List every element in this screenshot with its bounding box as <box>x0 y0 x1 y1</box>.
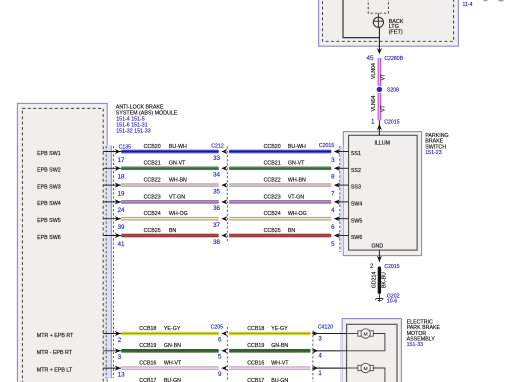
wire CCB23 VT-GN right segment <box>229 200 331 201</box>
svg-text:34: 34 <box>213 172 220 179</box>
svg-text:BN: BN <box>288 228 296 234</box>
svg-text:C212: C212 <box>211 143 224 149</box>
svg-text:VLN04: VLN04 <box>371 63 377 79</box>
motor M1 return loop to pin 4 <box>347 334 385 351</box>
svg-text:CCB19: CCB19 <box>139 343 156 349</box>
svg-text:19: 19 <box>118 190 125 197</box>
cut-off marks top right <box>484 0 488 1</box>
connector C205 arrow on wire CCB19 <box>221 348 227 353</box>
motor assembly inner body <box>347 324 397 382</box>
svg-text:CCB18: CCB18 <box>139 326 156 332</box>
wire CCB19 stub into park brake motor assembly <box>312 350 347 352</box>
svg-text:151-23: 151-23 <box>425 150 442 156</box>
internal wire L-shape inside module U2 <box>343 0 379 38</box>
svg-text:CCB24: CCB24 <box>264 211 281 217</box>
motor pin stub lines through connector face <box>318 333 347 335</box>
svg-text:VT: VT <box>380 104 386 111</box>
svg-text:EPB SW5: EPB SW5 <box>37 218 61 224</box>
svg-text:VT: VT <box>380 73 386 80</box>
svg-text:EPB SW6: EPB SW6 <box>37 235 61 241</box>
motor M1 feed wire <box>347 333 358 335</box>
electric park brake motor assembly M-box outer <box>342 319 401 382</box>
wire CCB20 BU-WH stub at ABS module pin 17 <box>103 151 121 153</box>
wire CCB22 stub into parking brake switch <box>338 184 349 186</box>
wire CCB21 GN-VT left segment <box>121 167 219 168</box>
wire CCB25 BN left segment <box>121 234 219 235</box>
connector C212 arrow on wire CCB25 <box>221 233 227 238</box>
svg-text:41: 41 <box>118 241 125 248</box>
svg-text:EPB SW3: EPB SW3 <box>37 184 61 190</box>
connector C205 arrow on wire CCB18 <box>221 331 227 336</box>
wire CCB18 stub into park brake motor assembly <box>312 333 347 335</box>
svg-text:MTR + EPB RT: MTR + EPB RT <box>37 333 74 339</box>
svg-text:BU-GN: BU-GN <box>164 378 181 382</box>
wire CCB21 GN-VT right segment <box>229 167 331 168</box>
in-line connector C212 dashed line <box>226 147 228 242</box>
svg-text:SW5: SW5 <box>351 218 363 224</box>
svg-text:VT-GN: VT-GN <box>288 194 304 200</box>
motor M2 return loop (cut off at page bottom) <box>373 368 385 382</box>
wire CCB24 WH-OG left segment <box>121 217 219 218</box>
svg-text:151-32 151-33: 151-32 151-33 <box>116 128 151 134</box>
connector C135 band at ABS module edge <box>104 146 111 379</box>
svg-text:CCB21: CCB21 <box>144 161 161 167</box>
svg-text:7: 7 <box>331 190 335 197</box>
svg-text:CCB17: CCB17 <box>247 378 264 382</box>
svg-text:C2015: C2015 <box>384 264 399 270</box>
connector C212 arrow on wire CCB21 <box>221 166 227 171</box>
svg-text:BU-WH: BU-WH <box>288 144 306 150</box>
wire CCB24 WH-OG stub at ABS module pin 39 <box>103 218 121 220</box>
wire CCB20 BU-WH left segment <box>121 150 219 151</box>
svg-text:WH-VT: WH-VT <box>271 361 289 367</box>
module U1 inner dashed border <box>22 108 103 382</box>
connector C4120 band at motor assembly edge <box>340 330 343 382</box>
svg-text:6: 6 <box>218 336 222 343</box>
wire CCB23 VT-GN left segment <box>121 200 219 201</box>
wire CCB20 BU-WH right segment <box>229 150 331 151</box>
connector C4120 arrow on wire CCB18 <box>312 331 318 336</box>
svg-text:VT-GN: VT-GN <box>169 194 185 200</box>
svg-text:1: 1 <box>371 119 375 126</box>
connector C212 arrow on wire CCB23 <box>221 199 227 204</box>
connector C2015 band at switch edge <box>340 146 343 252</box>
connector C2015 arrow on wire CCB20 <box>334 149 340 154</box>
wire VLN04 VT lower segment <box>377 93 380 121</box>
wire CCB23 stub into parking brake switch <box>338 201 349 203</box>
wire CCB16 stub into park brake motor assembly <box>312 367 347 369</box>
svg-text:WH-OG: WH-OG <box>288 211 307 217</box>
svg-text:CCB24: CCB24 <box>144 211 161 217</box>
connector C212 arrow on wire CCB22 <box>221 183 227 188</box>
svg-text:151-33: 151-33 <box>407 342 424 348</box>
svg-text:SW4: SW4 <box>351 202 363 208</box>
connector C4120 arrow on wire CCB19 <box>312 348 318 353</box>
connector C212 arrow on wire CCB20 <box>221 149 227 154</box>
ground symbol G202 <box>378 294 380 302</box>
svg-text:C4120: C4120 <box>318 325 333 331</box>
svg-text:MTR + EPB LT: MTR + EPB LT <box>37 368 73 374</box>
parking brake switch S1 inner body <box>349 135 418 250</box>
motor M2 feed wire <box>347 367 358 369</box>
connector C4120 dashed line <box>312 331 314 382</box>
wire stub into parking brake switch ILLUM pin <box>378 120 380 135</box>
wire CCB22 WH-BN right segment <box>229 183 331 184</box>
svg-text:WH-BN: WH-BN <box>169 178 187 184</box>
svg-text:9: 9 <box>218 371 222 378</box>
connector C135 dashed line (inner) <box>105 146 107 378</box>
svg-text:BU-GN: BU-GN <box>271 378 288 382</box>
svg-text:(FET): (FET) <box>389 30 403 36</box>
svg-text:WH-VT: WH-VT <box>164 361 182 367</box>
connector C2015 arrow on wire CCB24 <box>334 216 340 221</box>
wire CCB25 BN right segment <box>229 234 331 235</box>
wire CCB18 YE-GY left segment <box>121 332 219 333</box>
in-line connector C205 dashed line <box>226 327 228 382</box>
wire CCB25 BN stub at ABS module pin 41 <box>103 235 121 237</box>
wire CCB21 GN-VT stub at ABS module pin 18 <box>103 167 121 169</box>
wire CCB24 WH-OG right segment <box>229 217 331 218</box>
svg-text:M: M <box>364 366 368 372</box>
svg-text:M: M <box>364 331 368 337</box>
wire CCB18 YE-GY stub at ABS module pin 2 <box>103 333 121 335</box>
FET output symbol (circle with cross) BACK LTG <box>373 17 383 27</box>
svg-text:EPB SW2: EPB SW2 <box>37 168 61 174</box>
svg-text:SS1: SS1 <box>351 151 361 157</box>
svg-text:YE-GY: YE-GY <box>164 326 181 332</box>
svg-text:13: 13 <box>118 372 125 379</box>
wire stub from switch GND pin <box>378 250 380 262</box>
wire CCB18 YE-GY right segment <box>229 332 310 333</box>
svg-text:39: 39 <box>118 224 125 231</box>
svg-text:C205: C205 <box>211 325 224 331</box>
wire CCB25 stub into parking brake switch <box>338 235 349 237</box>
svg-text:GD214: GD214 <box>371 272 377 289</box>
wire CCB19 GN-BN left segment <box>121 349 219 350</box>
svg-text:SW6: SW6 <box>351 235 363 241</box>
motor M2 (circle with M) and brush terminals <box>358 365 362 370</box>
svg-text:3: 3 <box>118 354 122 361</box>
switch pin stub lines through connector face <box>338 151 349 153</box>
svg-text:4: 4 <box>318 353 322 360</box>
svg-text:GN-VT: GN-VT <box>169 161 186 167</box>
svg-text:35: 35 <box>213 188 220 195</box>
module U2 box (body control / back lighting module, cut off at top) <box>319 0 459 46</box>
connector C212 arrow on wire CCB24 <box>221 216 227 221</box>
svg-text:C2280B: C2280B <box>384 56 403 62</box>
connector C2015 arrow (down) at GND <box>377 256 382 262</box>
connector C2280B arrow (down) <box>377 48 382 54</box>
connector C205 arrow on wire CCB16 <box>221 366 227 371</box>
wire VLN04 VT upper segment <box>377 58 380 86</box>
wire CCB19 GN-BN stub at ABS module pin 3 <box>103 350 121 352</box>
svg-text:8: 8 <box>331 174 335 181</box>
svg-text:CCB16: CCB16 <box>247 361 264 367</box>
connector C135 dashed line (outer) <box>113 146 115 378</box>
svg-text:36: 36 <box>213 205 220 212</box>
svg-text:33: 33 <box>213 155 220 162</box>
svg-text:11-4: 11-4 <box>463 2 473 8</box>
svg-text:CCB20: CCB20 <box>264 144 281 150</box>
module U1 anti-lock brake system (ABS) module box <box>17 103 107 382</box>
svg-text:2: 2 <box>118 337 122 344</box>
svg-text:CCB16: CCB16 <box>139 361 156 367</box>
wire CCB16 WH-VT right segment <box>229 366 310 367</box>
wire stub from FET symbol down to connector C2280B <box>378 27 380 50</box>
svg-text:CCB25: CCB25 <box>144 228 161 234</box>
connector C2015 arrow (up) at ILLUM <box>377 124 382 130</box>
svg-text:WH-BN: WH-BN <box>288 178 306 184</box>
svg-text:C2015: C2015 <box>384 120 399 126</box>
svg-text:SS3: SS3 <box>351 185 361 191</box>
connector C2015 arrow on wire CCB21 <box>334 166 340 171</box>
sub-block dashed box (FET driver, cut off at top) <box>368 0 388 13</box>
svg-text:YE-GY: YE-GY <box>271 326 288 332</box>
svg-text:3: 3 <box>318 335 322 342</box>
svg-text:BN: BN <box>169 228 177 234</box>
svg-text:4: 4 <box>331 207 335 214</box>
svg-text:CCB21: CCB21 <box>264 161 281 167</box>
svg-text:ILLUM: ILLUM <box>374 141 390 147</box>
svg-text:GN-BN: GN-BN <box>164 343 181 349</box>
svg-text:3: 3 <box>331 157 335 164</box>
wire CCB20 stub into parking brake switch <box>338 151 349 153</box>
svg-text:CCB19: CCB19 <box>247 343 264 349</box>
svg-text:10-6: 10-6 <box>387 299 397 305</box>
svg-text:SS2: SS2 <box>351 168 361 174</box>
svg-text:2: 2 <box>370 263 374 270</box>
svg-text:GN-VT: GN-VT <box>288 161 305 167</box>
wire CCB21 stub into parking brake switch <box>338 167 349 169</box>
svg-text:1: 1 <box>318 370 322 377</box>
motor M1 (circle with M) and brush terminals <box>358 331 362 336</box>
svg-text:5: 5 <box>218 354 222 361</box>
parking brake switch S1 outer box <box>343 132 421 256</box>
svg-text:5: 5 <box>331 241 335 248</box>
svg-text:37: 37 <box>213 222 220 229</box>
wire CCB16 WH-VT left segment <box>121 366 219 367</box>
connector C2015 arrow on wire CCB25 <box>334 233 340 238</box>
connector C4120 arrow on wire CCB16 <box>312 366 318 371</box>
svg-text:EPB SW4: EPB SW4 <box>37 201 61 207</box>
wire CCB23 VT-GN stub at ABS module pin 24 <box>103 201 121 203</box>
svg-text:VLN04: VLN04 <box>371 95 377 111</box>
wire CCB24 stub into parking brake switch <box>338 218 349 220</box>
svg-text:WH-OG: WH-OG <box>169 211 188 217</box>
connector C2015 arrow on wire CCB22 <box>334 183 340 188</box>
wire CCB16 WH-VT stub at ABS module pin 13 <box>103 367 121 369</box>
svg-text:18: 18 <box>118 174 125 181</box>
svg-text:GN-BN: GN-BN <box>271 343 288 349</box>
wire CCB19 GN-BN right segment <box>229 349 310 350</box>
module U2 inner dashed border <box>323 0 454 41</box>
wire CCB22 WH-BN left segment <box>121 183 219 184</box>
svg-text:24: 24 <box>118 207 125 214</box>
svg-text:CCB22: CCB22 <box>264 178 281 184</box>
svg-text:MTR - EPB RT: MTR - EPB RT <box>37 350 73 356</box>
svg-text:S208: S208 <box>387 88 399 94</box>
svg-text:EPB SW1: EPB SW1 <box>37 151 61 157</box>
svg-text:38: 38 <box>213 239 220 246</box>
connector C2015 arrow on wire CCB23 <box>334 199 340 204</box>
svg-text:GND: GND <box>371 244 383 250</box>
svg-text:45: 45 <box>367 55 374 62</box>
svg-text:CCB17: CCB17 <box>139 378 156 382</box>
svg-text:C2015: C2015 <box>319 143 334 149</box>
connector C2015 dashed line <box>339 146 341 252</box>
wire CCB22 WH-BN stub at ABS module pin 19 <box>103 184 121 186</box>
wire GD214 BK-BU (black ground wire) <box>378 267 381 294</box>
svg-text:CCB22: CCB22 <box>144 178 161 184</box>
svg-text:BU-WH: BU-WH <box>169 144 187 150</box>
svg-text:CCB25: CCB25 <box>264 228 281 234</box>
svg-text:BK-BU: BK-BU <box>382 272 388 288</box>
svg-text:CCB23: CCB23 <box>144 194 161 200</box>
svg-text:CCB18: CCB18 <box>247 326 264 332</box>
svg-text:6: 6 <box>331 224 335 231</box>
splice S208 <box>377 87 382 92</box>
svg-text:CCB23: CCB23 <box>264 194 281 200</box>
svg-text:CCB20: CCB20 <box>144 144 161 150</box>
svg-text:17: 17 <box>118 157 125 164</box>
